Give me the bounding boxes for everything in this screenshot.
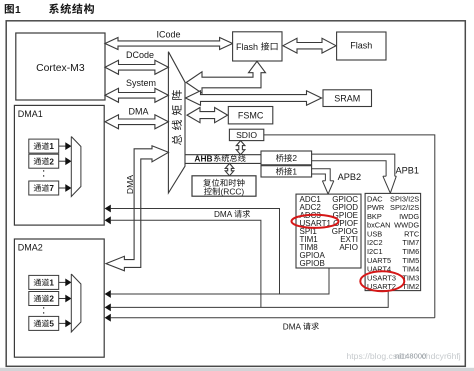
svg-text:7: 7 (49, 184, 54, 193)
wire SDIO to right and down to DMA2 request (264, 135, 435, 318)
RCC box 复位和时钟控制 (192, 176, 256, 196)
Flash interface box (233, 32, 282, 61)
DMA bus from matrix down to DMA2 hollow arrow (106, 146, 168, 271)
SDIO to AHB double arrow (236, 141, 245, 155)
svg-text:APB1: APB1 (396, 165, 420, 175)
DMA2 channel arrows (59, 281, 66, 283)
svg-text:2: 2 (292, 153, 297, 163)
DMA1 channel box 通道1 (29, 139, 59, 153)
svg-text:Flash: Flash (236, 42, 258, 52)
svg-text:TIM6: TIM6 (402, 247, 419, 256)
APB1 down arrowhead (383, 175, 386, 177)
APB1 peripherals box (365, 193, 421, 290)
System bus arrow (105, 88, 168, 102)
svg-text:RTC: RTC (404, 229, 420, 238)
DMA1 channel box 通道7 (29, 181, 59, 195)
AHB system bus bar (185, 154, 261, 156)
DMA1 box (14, 105, 104, 225)
svg-text:(RCC): (RCC) (221, 187, 245, 197)
SRAM box (323, 90, 372, 107)
svg-text:WWDG: WWDG (394, 221, 419, 230)
svg-text:DMA: DMA (283, 322, 302, 331)
svg-text:Cortex-M3: Cortex-M3 (36, 63, 85, 74)
SDIO box (229, 129, 263, 140)
DMA1 channel box 通道2 (29, 154, 59, 168)
svg-text:DCode: DCode (126, 50, 154, 60)
svg-text:APB2: APB2 (338, 172, 362, 182)
DMA request wire W1 from APB join to DMA1 (111, 209, 280, 295)
svg-text:AFIO: AFIO (339, 243, 358, 252)
bridge1 box 桥接1 (261, 166, 312, 177)
svg-text:1: 1 (49, 142, 54, 151)
svg-text:1: 1 (49, 279, 54, 288)
bus matrix (168, 52, 185, 193)
svg-text:SPI2/I2S: SPI2/I2S (390, 203, 419, 212)
FSMC double arrow (187, 108, 228, 123)
svg-text:TIM2: TIM2 (402, 282, 419, 291)
svg-text:1: 1 (15, 5, 21, 16)
AHB to RCC double arrow (225, 163, 234, 175)
DMA1 channel arrows (59, 145, 66, 147)
DMA2 funnel (71, 274, 81, 332)
svg-text:ni148000: ni148000 (395, 352, 426, 361)
DMA2 channel box 通道5 (29, 316, 59, 330)
svg-text:DMA2: DMA2 (18, 243, 43, 253)
svg-text:I2C1: I2C1 (367, 247, 383, 256)
FSMC box (228, 107, 272, 124)
DMA request wire W5 SDIO to DMA2 (111, 317, 435, 319)
svg-text:SPI3/I2S: SPI3/I2S (390, 194, 419, 203)
svg-text:SDIO: SDIO (236, 130, 257, 140)
svg-text:bxCAN: bxCAN (367, 221, 390, 230)
svg-text:SRAM: SRAM (334, 93, 360, 103)
svg-text:USART3: USART3 (367, 273, 396, 282)
svg-text:System: System (126, 78, 156, 88)
bridge2 box 桥接2 (261, 151, 312, 165)
APB2 down arrowhead (322, 180, 325, 182)
DMA2 box (14, 239, 104, 357)
ICode bus arrow (105, 38, 233, 50)
svg-text:DMA: DMA (129, 107, 149, 117)
svg-text:PWR: PWR (367, 203, 384, 212)
APB2 peripherals box (296, 194, 361, 268)
svg-text:TIM7: TIM7 (402, 238, 419, 247)
svg-text:TIM5: TIM5 (402, 256, 419, 265)
svg-text:IWDG: IWDG (399, 212, 419, 221)
red ellipse around USART2 (360, 271, 404, 291)
svg-text:2: 2 (49, 157, 54, 166)
DMA2 channel box 通道1 (29, 275, 59, 289)
wire bridge1 to APB2 arrow (312, 169, 331, 181)
svg-text:DMA: DMA (214, 210, 233, 219)
svg-text:DMA: DMA (125, 175, 135, 194)
svg-text:FSMC: FSMC (238, 110, 264, 120)
DMA2 channel box 通道2 (29, 292, 59, 306)
svg-text:BKP: BKP (367, 212, 382, 221)
title 图1 系统结构 (5, 4, 14, 14)
svg-text:I2C2: I2C2 (367, 238, 383, 247)
red ellipse around USART1 (292, 215, 339, 228)
DMA bus arrow (105, 115, 168, 129)
DMA request wire W4 APB1 to DMA2 (111, 291, 388, 308)
DMA1 channel dots (43, 170, 45, 180)
Cortex-M3 box (16, 33, 105, 100)
Flash interface to Flash double arrow (283, 38, 336, 53)
svg-text:AHB: AHB (194, 154, 212, 164)
svg-text:2: 2 (49, 295, 54, 304)
Flash box (337, 32, 386, 60)
DMA1 funnel (71, 137, 81, 197)
wire bridge2 to APB1 arrow (312, 154, 395, 176)
DMA request wire W2 to DMA1 (111, 220, 261, 307)
svg-text:DMA1: DMA1 (18, 109, 43, 119)
DMA request wire W3 APB2 to DMA2 (111, 268, 329, 294)
svg-text:ICode: ICode (156, 29, 180, 39)
matrix to Flash interface L-arrow (186, 61, 265, 93)
svg-text:Flash: Flash (350, 40, 372, 50)
svg-text:chdcyr6hfj: chdcyr6hfj (422, 351, 461, 361)
svg-text:DAC: DAC (367, 194, 383, 203)
SRAM double arrow (186, 91, 322, 105)
svg-text:TIM4: TIM4 (402, 265, 419, 274)
svg-text:GPIOB: GPIOB (300, 259, 325, 268)
DCode bus arrow (105, 60, 168, 74)
bottom gray strip (0, 368, 474, 371)
svg-text:USB: USB (367, 229, 382, 238)
svg-text:UART5: UART5 (367, 256, 391, 265)
bus matrix label 总线矩阵 (172, 90, 182, 145)
svg-text:5: 5 (49, 320, 54, 329)
DMA2 channel dots (43, 307, 45, 315)
svg-text:1: 1 (292, 167, 297, 177)
